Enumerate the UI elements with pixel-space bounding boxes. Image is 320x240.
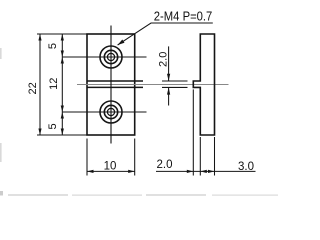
groove upper edge line	[87, 80, 143, 82]
bottom hole middle circle	[104, 105, 117, 118]
vertical centerline	[110, 26, 112, 144]
svg-text:3.0: 3.0	[238, 161, 254, 173]
groove extension stub upper	[162, 80, 188, 82]
dimension 10 line	[87, 170, 135, 172]
dimension 5 top line	[61, 34, 63, 57]
svg-text:2-M4 P=0.7: 2-M4 P=0.7	[154, 8, 213, 23]
leader line for 2-M4	[118, 23, 213, 45]
svg-text:2.0: 2.0	[157, 52, 169, 67]
top hole inner circle	[107, 53, 114, 60]
extension line tab left	[192, 89, 194, 175]
dimension 12 line	[61, 57, 63, 112]
bottom extension line	[37, 134, 87, 136]
side view profile	[193, 34, 214, 135]
svg-text:2.0: 2.0	[157, 159, 173, 171]
bottom hole inner circle	[107, 108, 114, 115]
top hole outer circle	[100, 46, 122, 68]
extension line below right of front view	[134, 139, 136, 176]
svg-text:5: 5	[47, 123, 59, 129]
dimension 2.0 groove upper line	[168, 46, 170, 81]
groove extension stub lower	[162, 86, 188, 88]
groove horizontal centerline	[77, 84, 229, 86]
svg-text:22: 22	[27, 82, 39, 94]
bottom hole centerline	[62, 111, 146, 113]
svg-text:12: 12	[48, 78, 60, 90]
left edge artifact upper	[0, 48, 2, 59]
top hole middle circle	[104, 50, 117, 63]
extension line side left	[199, 137, 201, 176]
dimension 5 bottom line	[61, 112, 63, 135]
bottom right dimension line	[156, 170, 256, 172]
svg-text:10: 10	[104, 160, 117, 172]
extension line side right	[214, 137, 216, 176]
front view plate outline	[87, 34, 135, 135]
groove lower edge line	[87, 86, 143, 88]
svg-text:5: 5	[47, 43, 59, 49]
dimension 2.0 groove lower line	[168, 87, 170, 105]
top extension line	[37, 33, 87, 35]
dimension 22 line	[39, 34, 41, 135]
left edge artifact lower	[0, 143, 2, 162]
top hole centerline	[62, 56, 146, 58]
bottom edge artifact	[0, 191, 3, 196]
extension line below left of front view	[86, 139, 88, 176]
bottom hole outer circle	[100, 101, 122, 123]
